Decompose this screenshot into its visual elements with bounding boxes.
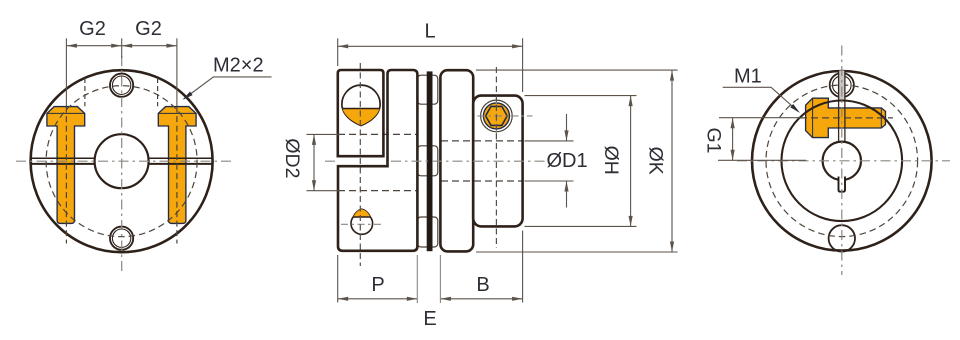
clamp screw orange section xyxy=(342,109,379,126)
hex socket xyxy=(486,106,508,125)
slit edges over screw xyxy=(839,108,845,128)
left view: hub end face xyxy=(16,56,232,271)
right view: hub end face with boss xyxy=(737,46,950,276)
hidden crosshair small screw xyxy=(341,223,383,225)
dimension OK xyxy=(476,70,678,252)
bottom hole outer xyxy=(110,227,133,250)
bottom hole inner xyxy=(112,229,130,247)
dimension L xyxy=(338,21,523,93)
dimension OD2 xyxy=(281,134,339,190)
outer circle right view xyxy=(752,71,932,251)
threaded hole chord xyxy=(353,216,370,218)
clamp screw M1 xyxy=(806,98,886,137)
dimension G2 xyxy=(66,18,176,72)
threaded hole drop xyxy=(351,209,373,234)
label M1 with leader xyxy=(723,66,800,113)
counterbore pocket hidden edge right xyxy=(157,78,159,106)
hidden bore lines left hub OD2 xyxy=(338,134,417,190)
dimension OD1 xyxy=(525,114,588,208)
slit lower line xyxy=(31,163,213,165)
label M2x2 with leader xyxy=(183,55,272,100)
svg-text:G1: G1 xyxy=(702,127,724,153)
top hole outer right view xyxy=(830,73,854,97)
svg-text:P: P xyxy=(371,274,384,296)
svg-text:G2: G2 xyxy=(79,18,106,40)
top hole inner right view xyxy=(833,76,852,95)
dimension P xyxy=(338,255,418,303)
left hub clamp box xyxy=(338,70,384,156)
hidden bore lines right hub OD1 xyxy=(441,141,522,181)
hex crosshair xyxy=(478,97,533,135)
vertical centerline left view xyxy=(121,56,123,271)
dimension G1 xyxy=(702,118,806,161)
screw centerline left xyxy=(65,72,67,106)
bore circle right view xyxy=(823,142,861,180)
disc bolt bushing 1 xyxy=(417,75,437,104)
top hole inner xyxy=(112,76,130,94)
clamp screw bore (drop) xyxy=(342,85,380,125)
disc bolt bushing 2 xyxy=(417,146,437,176)
screw centerline section xyxy=(359,63,361,266)
hex screw clearance circle xyxy=(481,100,513,132)
screw centerline right xyxy=(176,72,178,106)
slit upper line xyxy=(31,157,213,159)
horizontal centerline left view xyxy=(16,160,232,162)
svg-text:B: B xyxy=(476,274,489,296)
clamp screw M2 left xyxy=(47,107,85,224)
bore circle left view xyxy=(95,134,149,188)
left hub body xyxy=(338,70,417,251)
top hole outer xyxy=(110,74,133,97)
dimension E xyxy=(417,255,440,330)
screw facet lines xyxy=(813,98,882,137)
outer circle left view xyxy=(31,70,213,252)
right hub body xyxy=(473,96,522,227)
svg-text:ØD1: ØD1 xyxy=(546,150,587,172)
svg-text:G2: G2 xyxy=(135,18,162,40)
vertical centerline right view xyxy=(841,46,843,276)
bolt circle dashed right view xyxy=(766,85,918,237)
hex screw centerline section xyxy=(495,67,497,248)
clamp screw M2 right xyxy=(158,107,196,224)
svg-text:E: E xyxy=(423,308,436,330)
dimension B xyxy=(440,231,522,303)
bolt circle dashed left view xyxy=(46,86,197,237)
axis centerline xyxy=(325,160,545,162)
slit band gray xyxy=(839,71,845,101)
svg-text:M1: M1 xyxy=(734,66,762,88)
disc bolt bushing 3 xyxy=(417,217,437,247)
svg-text:ØH: ØH xyxy=(600,146,622,175)
svg-text:ØK: ØK xyxy=(644,147,666,175)
dimension OH xyxy=(525,96,637,227)
threaded hole orange tip xyxy=(353,209,370,217)
screw axis dashed xyxy=(800,117,893,119)
screw chord line xyxy=(342,108,379,110)
horizontal centerline right view xyxy=(737,160,950,162)
counterbore pocket hidden edge left xyxy=(84,78,86,106)
hex screw head xyxy=(483,103,509,129)
slit band edges xyxy=(839,71,845,142)
middle view: coupling side section xyxy=(325,63,545,266)
svg-text:ØD2: ØD2 xyxy=(281,138,303,178)
bottom hole right view xyxy=(829,225,855,251)
svg-text:L: L xyxy=(424,21,435,43)
svg-text:M2×2: M2×2 xyxy=(213,55,264,77)
disc pack bar xyxy=(427,71,433,251)
right hub flange xyxy=(440,70,473,251)
hub boss circle xyxy=(782,101,903,222)
slit relief slot below bore xyxy=(839,177,846,192)
